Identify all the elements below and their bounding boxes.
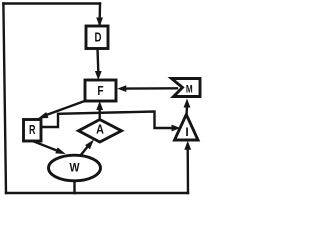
wire bottom bus left: [6, 192, 75, 194]
wire M to F: [126, 87, 177, 90]
arrowhead into I left: [172, 125, 181, 132]
arrowhead into F bottom: [96, 101, 103, 110]
arrowhead into M: [184, 99, 191, 108]
arrowhead into F right: [117, 85, 126, 92]
arrowhead into D: [96, 18, 103, 27]
wire A to F: [98, 108, 100, 120]
svg-text:A: A: [96, 123, 104, 137]
block R: [24, 120, 42, 142]
wire bottom bus right: [75, 192, 189, 194]
wire right riser to I: [186, 148, 189, 193]
ellipse W: [49, 155, 101, 181]
arrowhead into F top: [95, 71, 102, 80]
wire top feedback: [3, 2, 100, 4]
wire R to W: [33, 141, 59, 151]
label I: [185, 125, 188, 139]
label D: [95, 31, 102, 45]
wire W to A: [80, 146, 89, 157]
block F: [85, 80, 116, 101]
wire into D: [98, 4, 101, 26]
block D: [86, 26, 108, 49]
wire W to bottom bus: [73, 181, 75, 193]
wire left edge feedback: [3, 4, 6, 194]
label W: [70, 161, 81, 175]
wire F to R: [44, 101, 86, 116]
wire R to I path: [42, 112, 173, 129]
svg-text:M: M: [186, 83, 193, 95]
decision diamond A: [79, 120, 122, 143]
label M: [186, 83, 193, 95]
svg-text:W: W: [70, 161, 81, 175]
svg-text:R: R: [29, 123, 36, 137]
arrowhead into R: [38, 112, 49, 118]
wire I to M: [185, 106, 188, 114]
label A: [96, 123, 104, 137]
arrowhead into A: [85, 140, 94, 150]
label R: [29, 123, 36, 137]
svg-text:D: D: [95, 31, 102, 45]
arrowhead into W: [55, 147, 66, 154]
flag M: [172, 79, 201, 97]
wire D to F: [96, 49, 99, 73]
svg-text:I: I: [185, 125, 188, 139]
arrowhead into I base: [184, 141, 191, 150]
amplifier triangle I: [175, 115, 199, 141]
label F: [97, 84, 103, 98]
svg-text:F: F: [97, 84, 103, 98]
